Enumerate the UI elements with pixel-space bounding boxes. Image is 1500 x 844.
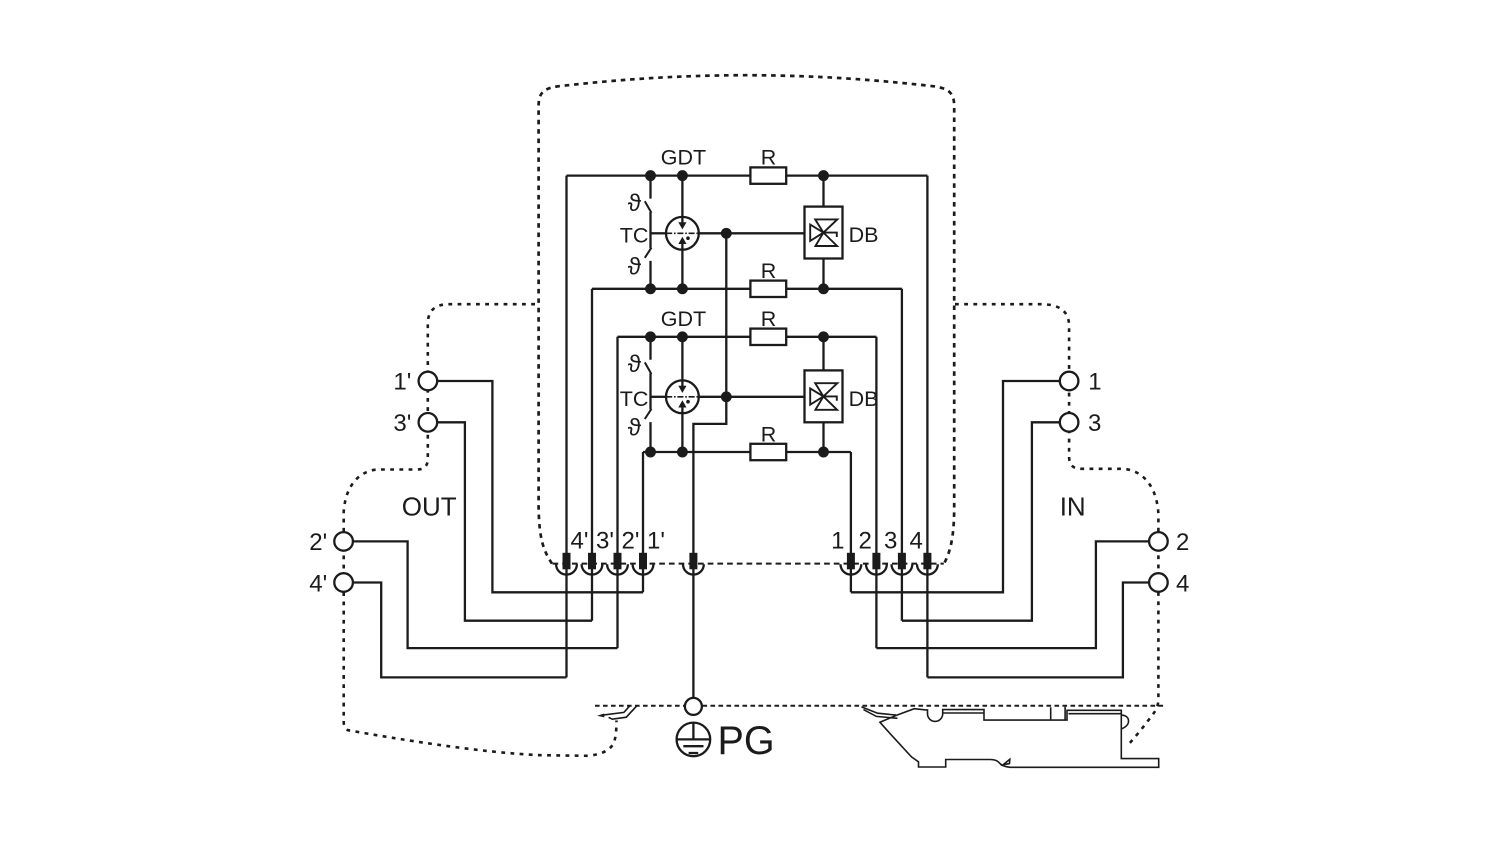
junction dots bottom rail (circuit 2) bbox=[645, 447, 829, 458]
resistor R (circuit 1 top) bbox=[750, 167, 786, 183]
IN terminal block boundary (dotted outline) bbox=[955, 304, 1158, 745]
svg-text:DB: DB bbox=[849, 223, 879, 247]
svg-text:ϑ: ϑ bbox=[628, 351, 642, 378]
svg-text:1': 1' bbox=[647, 528, 665, 555]
terminal 2' bbox=[607, 553, 628, 575]
wire DB to bottom rail (circuit 1) bbox=[822, 259, 824, 289]
DB bridge symbol (circuit 1) bbox=[810, 219, 837, 246]
svg-text:2: 2 bbox=[1176, 529, 1189, 556]
junction dots bottom rail (circuit 1) bbox=[645, 283, 829, 294]
wire center tap to PG (jog down-left then down) bbox=[693, 397, 726, 698]
svg-text:TC: TC bbox=[620, 387, 649, 411]
OUT socket circle 2' bbox=[334, 532, 353, 551]
svg-text:2': 2' bbox=[622, 528, 640, 555]
wire DB to bottom rail (circuit 2) bbox=[822, 422, 824, 452]
svg-text:4: 4 bbox=[910, 528, 923, 555]
svg-text:R: R bbox=[761, 146, 777, 170]
circuit 2: top rail wire bbox=[618, 336, 877, 338]
junction dots top rail (circuit 2) bbox=[645, 331, 829, 342]
GDT lower electrode arrow (circuit 1) bbox=[681, 244, 683, 289]
svg-text:ϑ: ϑ bbox=[628, 190, 642, 217]
GDT upper electrode arrow (circuit 2) bbox=[681, 337, 683, 386]
svg-text:3: 3 bbox=[1088, 410, 1101, 437]
svg-text:R: R bbox=[761, 422, 777, 446]
gas discharge tube GDT circle (circuit 1) bbox=[666, 217, 699, 250]
svg-text:PG: PG bbox=[718, 719, 775, 763]
wire center-electrode bus (circuit1 to circuit2) bbox=[725, 233, 727, 396]
circuit 2: right outer wire down to terminal 2 bbox=[875, 337, 877, 648]
GDT upper electrode arrow (circuit 1) bbox=[681, 176, 683, 223]
diode bridge DB box (circuit 1) bbox=[805, 207, 843, 259]
junction node at GDT center tap (circuit 2) bbox=[721, 391, 732, 402]
terminal 1' bbox=[633, 553, 654, 575]
wire IN 1 to terminal 1 bbox=[851, 381, 1060, 592]
wire GDT to DB (circuit 1) bbox=[699, 232, 805, 234]
circuit 1: right outer wire down to terminal 4 bbox=[926, 176, 928, 678]
thermal switch blade lower (circuit 2) bbox=[645, 409, 652, 419]
wire DB to top rail (circuit 2) bbox=[822, 337, 824, 371]
junction dots top rail (circuit 1) bbox=[645, 170, 829, 181]
circuit 2: left outer wire down to terminal 2' bbox=[616, 337, 618, 648]
svg-text:3: 3 bbox=[884, 528, 897, 555]
svg-text:ϑ: ϑ bbox=[628, 253, 642, 280]
DB bridge symbol (circuit 2) bbox=[810, 383, 837, 410]
terminal 1 bbox=[841, 553, 862, 575]
thermal switch blade upper (circuit 2) bbox=[645, 362, 652, 374]
wire IN 4 to terminal 4 bbox=[927, 583, 1149, 678]
svg-text:4': 4' bbox=[571, 528, 589, 555]
svg-text:4: 4 bbox=[1176, 570, 1189, 597]
main protector module boundary (dotted outline) bbox=[539, 75, 955, 563]
wire TC to GDT (circuit 2) bbox=[651, 396, 667, 398]
circuit 2: bottom-left wire down to terminal 1' bbox=[642, 452, 644, 592]
module terminal-row boundary (dashed line through terminals) bbox=[553, 563, 944, 565]
terminal 4' (contact + clamp arc) bbox=[556, 553, 577, 575]
resistor R (circuit 2 top) bbox=[750, 329, 786, 345]
wire TC to GDT (circuit 1) bbox=[651, 232, 667, 234]
IN socket circle 4 bbox=[1149, 573, 1168, 592]
PG / base dashed line (right part) bbox=[703, 705, 1167, 707]
protective earth symbol (circle) bbox=[677, 723, 711, 757]
IN socket circle 1 bbox=[1060, 372, 1079, 391]
svg-text:1: 1 bbox=[831, 528, 844, 555]
GDT small dot mark (circuit 1) bbox=[686, 236, 690, 240]
circuit 1: bottom-right wire down to terminal 3 bbox=[901, 289, 903, 621]
circuit 2: bottom-right wire down to terminal 1 bbox=[850, 452, 852, 592]
svg-text:R: R bbox=[761, 307, 777, 331]
svg-text:GDT: GDT bbox=[661, 307, 706, 331]
IN socket circle 3 bbox=[1060, 413, 1079, 432]
svg-text:IN: IN bbox=[1060, 491, 1086, 521]
OUT socket circle 3' bbox=[419, 413, 438, 432]
PG / base dashed line (left part) bbox=[595, 705, 685, 707]
terminal 3 bbox=[892, 553, 913, 575]
OUT terminal block boundary (dotted outline) bbox=[344, 304, 617, 756]
svg-text:ϑ: ϑ bbox=[628, 415, 642, 442]
svg-text:2: 2 bbox=[859, 528, 872, 555]
wire OUT 1' to terminal 1' bbox=[437, 381, 643, 592]
IN socket circle 2 bbox=[1149, 532, 1168, 551]
wire IN 2 to terminal 2 bbox=[876, 541, 1149, 648]
GDT center electrode dash-dot line (circuit 1) bbox=[666, 232, 699, 234]
wire OUT 3' to terminal 3' bbox=[437, 422, 592, 620]
junction node at GDT center tap (circuit 1) bbox=[721, 228, 732, 239]
diode bridge DB box (circuit 2) bbox=[805, 370, 843, 422]
resistor R (circuit 1 bottom) bbox=[750, 281, 786, 297]
terminal 2 bbox=[866, 553, 887, 575]
OUT socket circle 1' bbox=[419, 372, 438, 391]
svg-text:OUT: OUT bbox=[402, 491, 457, 521]
DIN rail foot cross-section (right) bbox=[862, 707, 1159, 768]
wire OUT 2' to terminal 2' bbox=[353, 541, 618, 648]
svg-text:DB: DB bbox=[849, 387, 879, 411]
thermal switch blade upper (circuit 1) bbox=[645, 201, 652, 213]
svg-text:GDT: GDT bbox=[661, 146, 706, 170]
svg-text:R: R bbox=[761, 259, 777, 283]
wire DB to top rail (circuit 1) bbox=[822, 176, 824, 207]
resistor R (circuit 2 bottom) bbox=[750, 444, 786, 460]
GDT center electrode dash-dot line (circuit 2) bbox=[666, 396, 699, 398]
PG socket circle bbox=[685, 698, 702, 715]
svg-text:3': 3' bbox=[393, 410, 411, 437]
svg-text:TC: TC bbox=[620, 223, 649, 247]
protective earth symbol (stem and bars) bbox=[677, 723, 710, 753]
wire IN 3 to terminal 3 bbox=[902, 422, 1060, 620]
wire OUT 4' to terminal 4' bbox=[353, 583, 567, 678]
GDT small dot mark (circuit 2) bbox=[686, 400, 690, 404]
svg-text:1: 1 bbox=[1088, 369, 1101, 396]
OUT socket circle 4' bbox=[334, 573, 353, 592]
thermal disconnect TC chain wire (circuit 1) bbox=[649, 176, 651, 289]
circuit 1: bottom rail wire bbox=[592, 288, 902, 290]
circuit 1: bottom-left wire down to terminal 3' bbox=[591, 289, 593, 621]
svg-text:1': 1' bbox=[393, 369, 411, 396]
terminal 4 bbox=[917, 553, 938, 575]
terminal PG (center) bbox=[683, 553, 704, 575]
terminal 3' bbox=[582, 553, 603, 575]
circuit 2: bottom rail wire bbox=[643, 451, 851, 453]
circuit 1: top rail wire bbox=[567, 174, 928, 176]
svg-text:4': 4' bbox=[309, 570, 327, 597]
svg-text:3': 3' bbox=[596, 528, 614, 555]
thermal disconnect TC chain wire (circuit 2) bbox=[649, 337, 651, 452]
svg-text:2': 2' bbox=[309, 529, 327, 556]
left mounting clip (spring with arrow) bbox=[602, 706, 636, 719]
GDT lower electrode arrow (circuit 2) bbox=[681, 407, 683, 452]
thermal switch blade lower (circuit 1) bbox=[645, 248, 652, 258]
gas discharge tube GDT circle (circuit 2) bbox=[666, 380, 699, 413]
circuit 1: left outer wire down to terminal 4' bbox=[565, 176, 567, 678]
wire GDT to DB (circuit 2) bbox=[699, 396, 805, 398]
